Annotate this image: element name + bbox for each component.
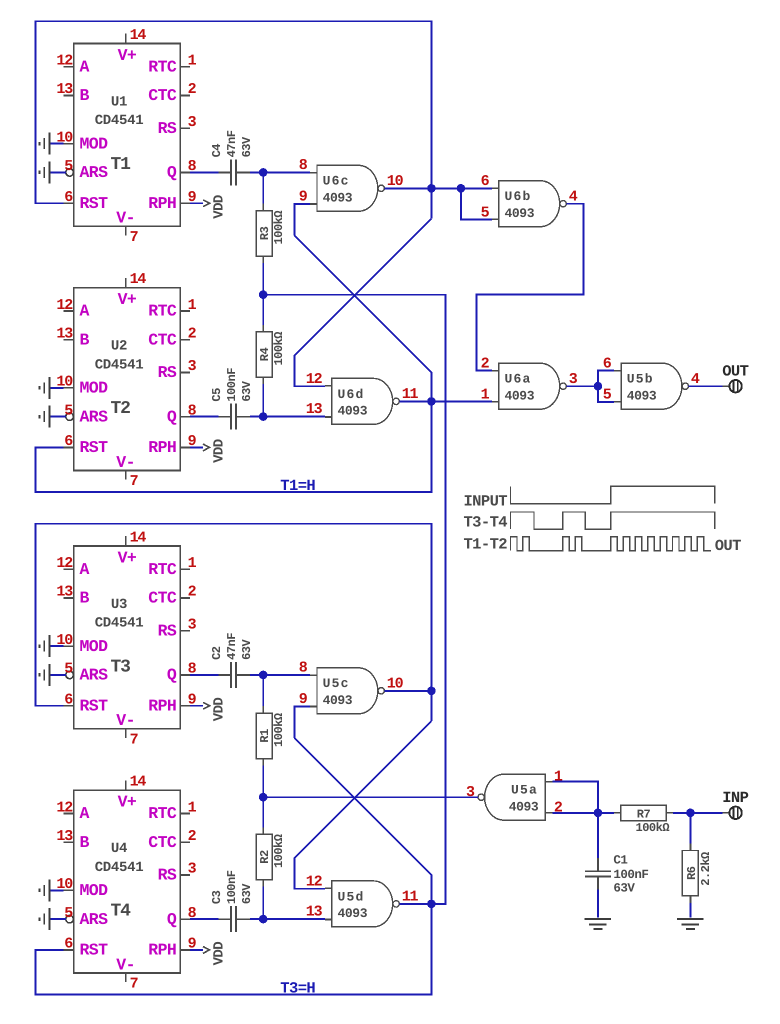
svg-text:12: 12 bbox=[306, 874, 323, 891]
svg-text:100kΩ: 100kΩ bbox=[272, 713, 286, 747]
NAND gate U5c 4093 bbox=[317, 668, 378, 714]
wire junction down to R1 bbox=[262, 675, 264, 706]
svg-text:CD4541: CD4541 bbox=[95, 113, 144, 129]
ground at U1 pin ARS bbox=[50, 171, 66, 173]
IC U1 CD4541 (T1) bbox=[74, 44, 181, 227]
svg-text:13: 13 bbox=[56, 325, 73, 342]
NAND gate U5a 4093 bbox=[485, 774, 546, 820]
node U6c out bbox=[427, 184, 436, 193]
capacitor C3 100nF 63V bbox=[219, 918, 231, 920]
svg-text:3: 3 bbox=[188, 861, 197, 878]
svg-text:CD4541: CD4541 bbox=[95, 357, 144, 373]
svg-text:INP: INP bbox=[722, 789, 748, 807]
wire U5b pin5 wrap bbox=[598, 386, 614, 402]
wire diagonal U6c9 to U6d out bbox=[294, 235, 431, 401]
svg-text:12: 12 bbox=[56, 799, 73, 816]
wire U5a pin1 wrap bbox=[553, 782, 598, 813]
svg-text:U4: U4 bbox=[111, 841, 127, 857]
svg-text:63V: 63V bbox=[613, 882, 635, 896]
NAND gate U6d 4093 bbox=[332, 378, 393, 424]
svg-text:100kΩ: 100kΩ bbox=[272, 834, 286, 868]
svg-text:6: 6 bbox=[603, 355, 612, 372]
wire down to C1 bbox=[597, 813, 599, 858]
svg-text:U5b: U5b bbox=[627, 372, 654, 387]
wire Q U3 to cap bbox=[190, 674, 218, 676]
svg-text:U6b: U6b bbox=[505, 189, 532, 204]
svg-text:Q: Q bbox=[167, 407, 177, 426]
svg-text:10: 10 bbox=[387, 676, 404, 693]
svg-text:T3=H: T3=H bbox=[280, 980, 315, 998]
svg-text:14: 14 bbox=[130, 530, 147, 547]
resistor R4 100k&#937; bbox=[262, 325, 264, 332]
capacitor C5 100nF 63V bbox=[219, 416, 231, 418]
ground at U4 pin ARS bbox=[50, 918, 66, 920]
wire R2 to Q junction bbox=[262, 887, 264, 919]
node U6d out bbox=[427, 397, 436, 406]
svg-text:12: 12 bbox=[56, 297, 73, 314]
wire junction to gate U5c pin8 bbox=[263, 674, 310, 676]
svg-text:OUT: OUT bbox=[722, 362, 748, 380]
svg-text:T1: T1 bbox=[111, 155, 132, 175]
wire RST U2 loop bbox=[36, 401, 432, 491]
svg-text:A: A bbox=[80, 302, 90, 321]
ground at U3 pin ARS bbox=[50, 674, 66, 676]
ground bbox=[677, 918, 703, 920]
svg-text:R4: R4 bbox=[258, 348, 272, 362]
node U5c out bbox=[427, 687, 436, 696]
svg-text:4093: 4093 bbox=[627, 388, 657, 403]
wire U5a pin2 bbox=[553, 812, 598, 814]
node U5d out bbox=[427, 900, 436, 909]
wire mid node to R2 bbox=[262, 797, 264, 827]
wire U6c pin9 wrap bbox=[294, 204, 310, 235]
IC U3 CD4541 (T3) bbox=[74, 546, 181, 729]
svg-text:VDD: VDD bbox=[212, 942, 228, 966]
svg-text:Q: Q bbox=[167, 666, 177, 685]
wire U6c out to U6b pin6 bbox=[431, 187, 491, 189]
svg-text:8: 8 bbox=[299, 157, 308, 174]
svg-text:2: 2 bbox=[481, 355, 490, 372]
IC U2 CD4541 (T2) bbox=[74, 288, 181, 471]
svg-text:12: 12 bbox=[56, 555, 73, 572]
wire R6 to ground bbox=[689, 903, 691, 918]
wire Q U2 to cap bbox=[190, 416, 218, 418]
power VDD arrow bbox=[190, 202, 203, 204]
capacitor C1 100nF 63V bbox=[597, 858, 599, 871]
svg-text:Q: Q bbox=[167, 910, 177, 929]
svg-text:RTC: RTC bbox=[148, 302, 177, 321]
svg-text:14: 14 bbox=[130, 27, 147, 44]
svg-text:4093: 4093 bbox=[338, 906, 368, 921]
svg-text:CD4541: CD4541 bbox=[95, 616, 144, 632]
power VDD arrow bbox=[190, 446, 203, 448]
svg-text:V-: V- bbox=[116, 955, 135, 974]
svg-text:1: 1 bbox=[188, 555, 197, 572]
wire vert below node bbox=[430, 188, 432, 218]
NAND gate U5d 4093 bbox=[332, 881, 393, 927]
svg-text:T1-T2: T1-T2 bbox=[463, 536, 507, 554]
svg-text:7: 7 bbox=[130, 229, 138, 246]
svg-text:V-: V- bbox=[116, 453, 135, 472]
wire Q U4 to cap bbox=[190, 918, 218, 920]
ground at U2 pin MOD bbox=[50, 387, 64, 389]
svg-text:U3: U3 bbox=[111, 597, 127, 613]
svg-text:INPUT: INPUT bbox=[463, 492, 507, 510]
svg-text:RST: RST bbox=[80, 696, 109, 715]
svg-text:R6: R6 bbox=[685, 866, 699, 880]
svg-text:14: 14 bbox=[130, 271, 147, 288]
wire U5d out up to R3/R4 mid bbox=[263, 295, 445, 904]
svg-text:V-: V- bbox=[116, 711, 135, 730]
svg-text:V+: V+ bbox=[118, 548, 137, 567]
svg-text:2: 2 bbox=[188, 81, 197, 98]
waveform trace T1-T2 with OUT bbox=[511, 537, 712, 551]
wire R1 to mid node bbox=[262, 766, 264, 798]
svg-text:C4: C4 bbox=[210, 144, 224, 158]
svg-text:63V: 63V bbox=[240, 638, 254, 659]
wire junction down to R3 bbox=[262, 172, 264, 203]
ground at U1 pin MOD bbox=[50, 143, 64, 145]
resistor R3 100k&#937; bbox=[262, 204, 264, 211]
svg-text:B: B bbox=[80, 330, 90, 349]
svg-text:U2: U2 bbox=[111, 339, 127, 355]
svg-text:B: B bbox=[80, 833, 90, 852]
svg-text:100kΩ: 100kΩ bbox=[272, 211, 286, 245]
wire junction to gate U6c pin8 bbox=[263, 171, 310, 173]
svg-text:RST: RST bbox=[80, 438, 109, 457]
svg-text:63V: 63V bbox=[240, 883, 254, 904]
svg-text:T3-T4: T3-T4 bbox=[463, 514, 507, 532]
svg-text:C5: C5 bbox=[210, 388, 224, 402]
svg-text:U5d: U5d bbox=[338, 889, 365, 904]
svg-text:4093: 4093 bbox=[323, 693, 353, 708]
wire U6d out bbox=[399, 400, 431, 402]
resistor R1 100k&#937; bbox=[262, 706, 264, 713]
svg-text:5: 5 bbox=[603, 387, 612, 404]
svg-text:RPH: RPH bbox=[148, 438, 176, 457]
svg-text:RS: RS bbox=[158, 119, 177, 138]
svg-text:14: 14 bbox=[130, 774, 147, 791]
svg-text:RST: RST bbox=[80, 194, 109, 213]
svg-text:MOD: MOD bbox=[80, 881, 109, 900]
node QU3 bbox=[259, 671, 268, 680]
svg-text:T1=H: T1=H bbox=[280, 477, 315, 495]
svg-text:1: 1 bbox=[188, 799, 197, 816]
svg-text:RTC: RTC bbox=[148, 560, 177, 579]
wire U5c out bbox=[384, 690, 431, 692]
svg-text:6: 6 bbox=[64, 433, 73, 450]
svg-text:13: 13 bbox=[56, 81, 73, 98]
svg-text:B: B bbox=[80, 86, 90, 105]
svg-text:7: 7 bbox=[130, 731, 138, 748]
svg-text:63V: 63V bbox=[240, 380, 254, 401]
svg-text:8: 8 bbox=[299, 660, 308, 677]
svg-text:MOD: MOD bbox=[80, 379, 109, 398]
svg-text:7: 7 bbox=[130, 473, 138, 490]
svg-text:A: A bbox=[80, 560, 90, 579]
svg-text:13: 13 bbox=[306, 904, 323, 921]
wire U6b out to U6a pin2 bbox=[477, 204, 584, 371]
svg-text:100nF: 100nF bbox=[225, 368, 239, 402]
svg-text:2.2kΩ: 2.2kΩ bbox=[699, 852, 713, 886]
svg-text:6: 6 bbox=[64, 692, 73, 709]
terminal OUT bbox=[722, 385, 729, 387]
svg-text:CTC: CTC bbox=[148, 86, 177, 105]
svg-text:100nF: 100nF bbox=[225, 870, 239, 904]
svg-text:1: 1 bbox=[188, 53, 197, 70]
svg-text:RTC: RTC bbox=[148, 804, 177, 823]
svg-text:R2: R2 bbox=[258, 850, 272, 864]
capacitor C4 47nF 63V bbox=[219, 171, 231, 173]
svg-text:CTC: CTC bbox=[148, 589, 177, 608]
svg-text:12: 12 bbox=[56, 53, 73, 70]
svg-text:U6a: U6a bbox=[505, 372, 532, 387]
IC U4 CD4541 (T4) bbox=[74, 790, 181, 973]
svg-text:100kΩ: 100kΩ bbox=[272, 332, 286, 366]
svg-text:VDD: VDD bbox=[212, 195, 228, 219]
wire RST U3 loop bbox=[36, 524, 432, 706]
wire U6b pin5 wrap bbox=[461, 188, 492, 219]
wire junction to gate U5d pin13 bbox=[263, 918, 325, 920]
node QU1 bbox=[259, 168, 268, 177]
svg-text:4093: 4093 bbox=[509, 799, 539, 814]
svg-text:R1: R1 bbox=[258, 729, 272, 743]
wire cap to junction bbox=[250, 674, 263, 676]
capacitor C2 47nF 63V bbox=[219, 674, 231, 676]
svg-text:3: 3 bbox=[466, 784, 475, 801]
ground bbox=[585, 918, 611, 920]
svg-text:6: 6 bbox=[64, 936, 73, 953]
svg-text:13: 13 bbox=[306, 401, 323, 418]
svg-text:RPH: RPH bbox=[148, 194, 176, 213]
svg-text:U5c: U5c bbox=[323, 676, 350, 691]
wire U6d out to U6a pin1 bbox=[431, 401, 491, 403]
ground at U4 pin MOD bbox=[50, 889, 64, 891]
svg-text:RTC: RTC bbox=[148, 58, 177, 77]
svg-text:47nF: 47nF bbox=[225, 633, 239, 660]
wire mid node to R4 bbox=[262, 295, 264, 325]
wire junction to gate U6d pin13 bbox=[263, 416, 325, 418]
resistor R7 100k bbox=[614, 812, 621, 814]
wire diagonal U5c out to U5d12 bbox=[294, 721, 431, 889]
svg-text:10: 10 bbox=[387, 173, 404, 190]
svg-text:RPH: RPH bbox=[148, 696, 176, 715]
wire to R7 bbox=[598, 812, 614, 814]
wire U5b pin6 wrap bbox=[598, 371, 614, 387]
svg-text:T3: T3 bbox=[111, 657, 131, 677]
waveform trace T3-T4 bbox=[511, 512, 715, 529]
svg-text:RST: RST bbox=[80, 941, 109, 960]
node QU2 bbox=[259, 412, 268, 421]
svg-text:MOD: MOD bbox=[80, 134, 109, 153]
wire cap to junction bbox=[250, 416, 263, 418]
svg-text:RPH: RPH bbox=[148, 941, 176, 960]
node U5a input bbox=[594, 809, 603, 818]
svg-text:T2: T2 bbox=[111, 399, 131, 419]
wire R7 to INP node bbox=[673, 812, 690, 814]
svg-text:ARS: ARS bbox=[80, 163, 109, 182]
wire diagonal U6c out to U6d12 bbox=[294, 219, 431, 387]
svg-text:ARS: ARS bbox=[80, 910, 109, 929]
svg-text:4093: 4093 bbox=[338, 404, 368, 419]
svg-text:100kΩ: 100kΩ bbox=[636, 821, 670, 835]
svg-text:R3: R3 bbox=[258, 226, 272, 240]
svg-text:OUT: OUT bbox=[715, 537, 741, 555]
resistor R6 2.2k bbox=[689, 844, 691, 851]
svg-text:U5a: U5a bbox=[511, 783, 538, 798]
wire U5a out to R1/R2 mid bbox=[263, 796, 478, 798]
svg-text:U1: U1 bbox=[111, 95, 127, 111]
svg-text:B: B bbox=[80, 589, 90, 608]
NAND gate U6c 4093 bbox=[317, 165, 378, 211]
svg-text:6: 6 bbox=[481, 173, 490, 190]
svg-text:V-: V- bbox=[116, 209, 135, 228]
svg-text:V+: V+ bbox=[118, 793, 137, 812]
svg-text:3: 3 bbox=[188, 617, 197, 634]
svg-text:V+: V+ bbox=[118, 46, 137, 65]
svg-text:2: 2 bbox=[554, 799, 563, 816]
svg-text:11: 11 bbox=[402, 889, 419, 906]
wire U5b out to OUT bbox=[689, 385, 723, 387]
ground at U3 pin MOD bbox=[50, 645, 64, 647]
wire RST U4 loop bbox=[36, 904, 432, 994]
ground at U2 pin ARS bbox=[50, 416, 66, 418]
svg-text:47nF: 47nF bbox=[225, 130, 239, 157]
wire R3 to mid node bbox=[262, 263, 264, 295]
svg-text:RS: RS bbox=[158, 866, 177, 885]
wire RST U1 loop bbox=[36, 21, 432, 203]
wire INP node to terminal bbox=[690, 812, 722, 814]
node U6b input branch bbox=[457, 184, 466, 193]
svg-text:CTC: CTC bbox=[148, 833, 177, 852]
svg-text:ARS: ARS bbox=[80, 666, 109, 685]
svg-text:9: 9 bbox=[299, 189, 308, 206]
svg-text:63V: 63V bbox=[240, 136, 254, 157]
node INP branch bbox=[686, 809, 695, 818]
wire INP node down to R6 bbox=[689, 813, 691, 844]
svg-text:11: 11 bbox=[402, 386, 419, 403]
svg-text:U6d: U6d bbox=[338, 387, 365, 402]
svg-text:RS: RS bbox=[158, 621, 177, 640]
svg-text:VDD: VDD bbox=[212, 698, 228, 722]
svg-text:5: 5 bbox=[481, 204, 490, 221]
svg-text:2: 2 bbox=[188, 325, 197, 342]
svg-text:7: 7 bbox=[130, 976, 138, 993]
svg-text:4093: 4093 bbox=[323, 191, 353, 206]
node mid divider bbox=[259, 793, 268, 802]
svg-text:A: A bbox=[80, 804, 90, 823]
svg-text:4093: 4093 bbox=[505, 388, 535, 403]
wire Q U1 to cap bbox=[190, 171, 218, 173]
power VDD arrow bbox=[190, 705, 203, 707]
terminal INP bbox=[722, 812, 729, 814]
svg-text:4093: 4093 bbox=[505, 206, 535, 221]
svg-text:C3: C3 bbox=[210, 890, 224, 904]
svg-text:T4: T4 bbox=[111, 902, 132, 922]
svg-text:CTC: CTC bbox=[148, 330, 177, 349]
svg-text:V+: V+ bbox=[118, 290, 137, 309]
svg-text:VDD: VDD bbox=[212, 439, 228, 463]
svg-text:C2: C2 bbox=[210, 646, 224, 660]
svg-text:3: 3 bbox=[188, 358, 197, 375]
node QU4 bbox=[259, 915, 268, 924]
svg-text:13: 13 bbox=[56, 584, 73, 601]
svg-text:12: 12 bbox=[306, 371, 323, 388]
svg-text:1: 1 bbox=[554, 769, 563, 786]
wire diagonal U5c9 to U5d out bbox=[294, 738, 431, 904]
wire U5c pin9 wrap bbox=[294, 706, 310, 737]
svg-text:A: A bbox=[80, 58, 90, 77]
svg-text:100nF: 100nF bbox=[613, 868, 648, 882]
wire vert below node bbox=[430, 691, 432, 721]
wire C1 to ground bbox=[597, 890, 599, 918]
wire cap to junction bbox=[250, 918, 263, 920]
svg-text:RS: RS bbox=[158, 363, 177, 382]
svg-text:2: 2 bbox=[188, 584, 197, 601]
svg-text:3: 3 bbox=[188, 114, 197, 131]
wire U5d out bbox=[399, 903, 431, 905]
wire U6c out bbox=[384, 187, 431, 189]
NAND gate U6a 4093 bbox=[499, 363, 560, 409]
NAND gate U6b 4093 bbox=[499, 181, 560, 227]
resistor R2 100k&#937; bbox=[262, 827, 264, 834]
node mid divider bbox=[259, 290, 268, 299]
power VDD arrow bbox=[190, 949, 203, 951]
svg-text:C1: C1 bbox=[613, 854, 627, 868]
NAND gate U5b 4093 bbox=[621, 363, 682, 409]
svg-text:13: 13 bbox=[56, 828, 73, 845]
svg-text:9: 9 bbox=[299, 691, 308, 708]
wire R4 to Q junction bbox=[262, 384, 264, 416]
node U5b input branch bbox=[594, 382, 603, 391]
svg-text:1: 1 bbox=[188, 297, 197, 314]
wire cap to junction bbox=[250, 171, 263, 173]
svg-text:6: 6 bbox=[64, 189, 73, 206]
svg-text:MOD: MOD bbox=[80, 637, 109, 656]
svg-text:Q: Q bbox=[167, 163, 177, 182]
svg-text:2: 2 bbox=[188, 828, 197, 845]
wire U6a out bbox=[566, 385, 598, 387]
svg-text:CD4541: CD4541 bbox=[95, 860, 144, 876]
svg-text:U6c: U6c bbox=[323, 174, 350, 189]
svg-text:ARS: ARS bbox=[80, 407, 109, 426]
svg-text:R7: R7 bbox=[637, 808, 651, 822]
waveform trace INPUT bbox=[511, 486, 715, 503]
